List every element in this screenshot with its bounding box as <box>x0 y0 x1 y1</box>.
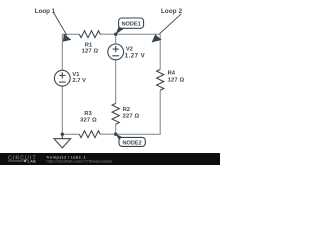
svg-text:Loop 2: Loop 2 <box>161 8 183 15</box>
annotation Loop 1 arrow <box>54 13 72 42</box>
svg-text:Loop 1: Loop 1 <box>35 8 56 15</box>
resistor R1 <box>79 31 100 38</box>
wire middle branch: V2 to R2 <box>115 60 117 104</box>
svg-text:R2: R2 <box>123 107 130 113</box>
label R4 value <box>168 71 185 84</box>
label R3 value <box>80 111 97 124</box>
resistor R3 <box>79 131 100 138</box>
label R1 value <box>82 43 99 55</box>
wire bottom: node B to right corner <box>116 133 161 135</box>
svg-text:1.27 V: 1.27 V <box>125 53 145 59</box>
annotation Loop 2 arrow <box>152 14 182 43</box>
junction node A <box>114 33 117 36</box>
svg-text:http://circuitlab.com/c778nwqv: http://circuitlab.com/c778nwqvxqham <box>47 160 113 164</box>
svg-text:NODE2: NODE2 <box>122 140 141 146</box>
svg-text:R3: R3 <box>84 111 92 117</box>
label V2 value <box>125 46 145 59</box>
wire top: node A to right corner <box>116 33 161 35</box>
node label NODE1 <box>116 18 144 35</box>
wire top: left corner to R1 <box>62 33 79 35</box>
wire left branch: V1 to ground node <box>61 86 63 134</box>
wire middle branch: node A to V2 <box>115 34 117 44</box>
junction ground node <box>61 133 64 136</box>
svg-text:127 Ω: 127 Ω <box>168 78 185 84</box>
svg-text:127 Ω: 127 Ω <box>82 49 99 55</box>
svg-text:LAB: LAB <box>28 159 36 164</box>
svg-text:227 Ω: 227 Ω <box>123 114 140 120</box>
wire top: R1 to node A <box>100 33 116 35</box>
svg-text:V2: V2 <box>126 46 133 52</box>
wire bottom: R3 to node B <box>100 133 116 135</box>
ground <box>54 134 71 148</box>
svg-text:R4: R4 <box>168 71 176 77</box>
wire right branch: corner to R4 <box>159 34 161 69</box>
wire right branch: R4 to bottom corner <box>159 90 161 134</box>
watermark logo CIRCUIT LAB <box>8 155 37 163</box>
svg-text:NODE1: NODE1 <box>121 22 140 28</box>
wire middle branch: R2 to node B <box>115 124 117 134</box>
wire bottom: ground node to R3 <box>62 133 79 135</box>
junction node B <box>114 133 117 136</box>
wire left branch: corner to V1 <box>61 34 63 70</box>
label V1 value <box>72 72 86 84</box>
resistor R2 <box>112 103 119 124</box>
resistor R4 <box>157 69 164 90</box>
watermark bar <box>0 153 220 165</box>
voltage source V1 <box>54 70 70 86</box>
svg-text:2.7 V: 2.7 V <box>72 78 86 84</box>
svg-text:327 Ω: 327 Ω <box>80 118 97 124</box>
label R2 value <box>123 107 140 120</box>
voltage source V2 <box>108 44 124 60</box>
node label NODE2 <box>116 134 146 147</box>
